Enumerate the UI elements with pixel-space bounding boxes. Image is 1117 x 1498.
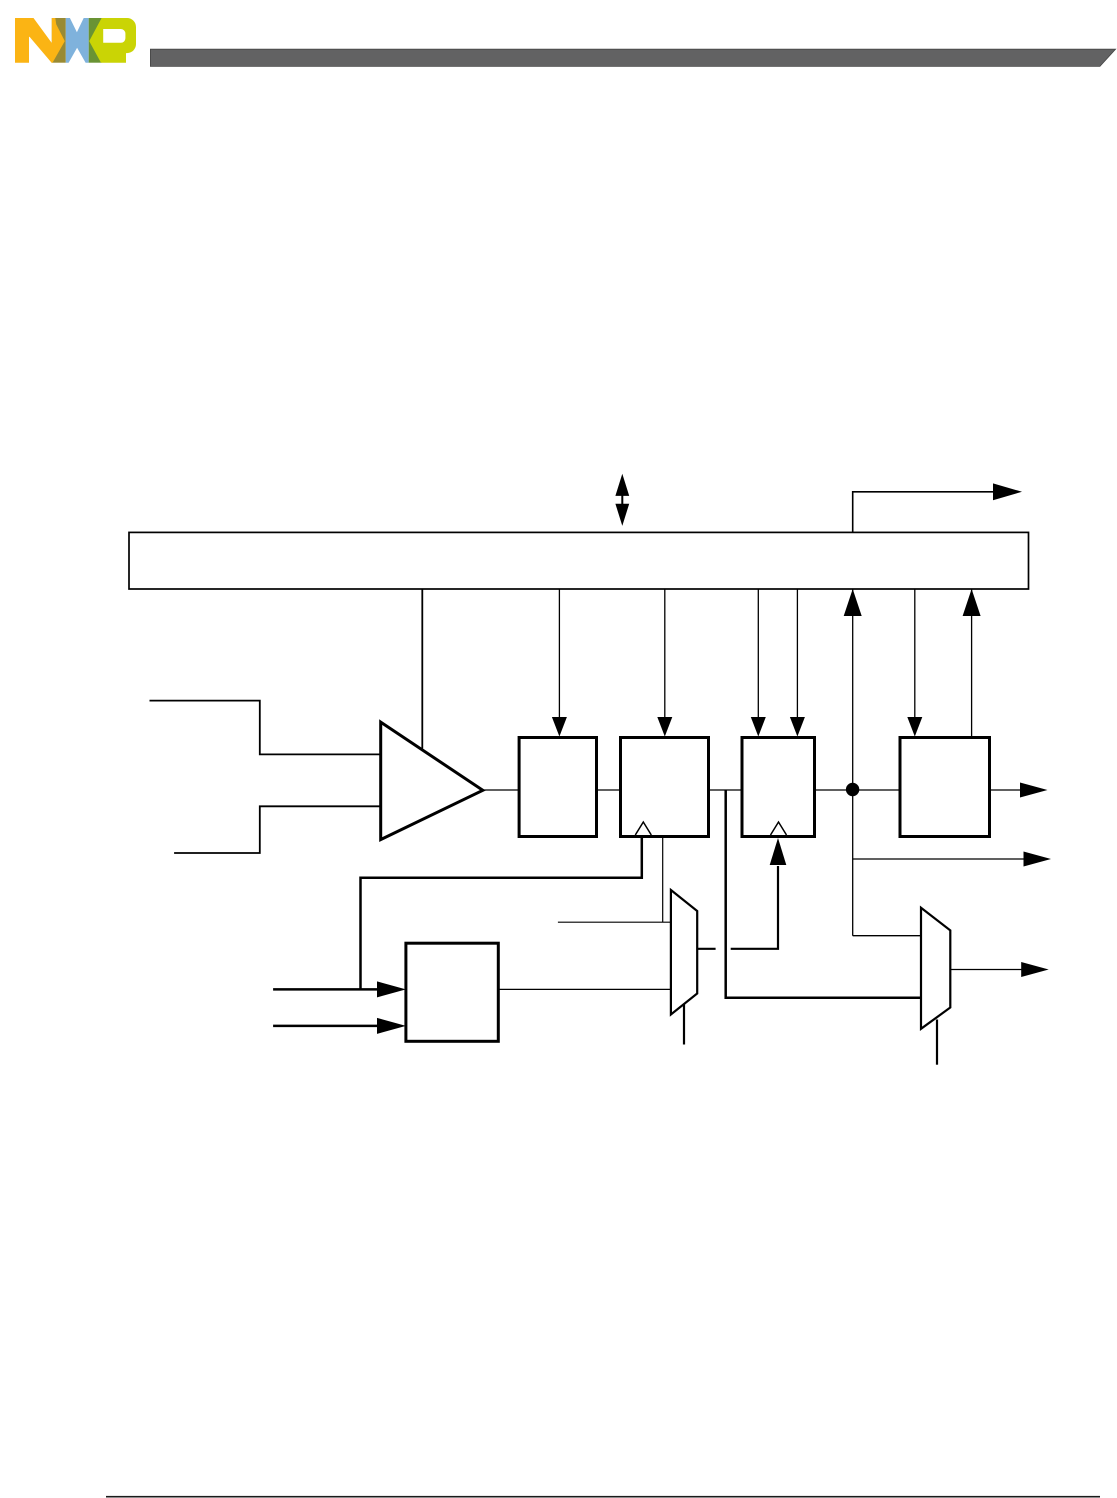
box3 clock chevron bbox=[771, 822, 787, 835]
wire bus to prescaler amp bbox=[421, 589, 423, 749]
wire box3 to box4 bbox=[815, 789, 901, 791]
input clock arrow 1 bbox=[273, 988, 378, 991]
mux1 trapezoid bbox=[671, 890, 697, 1015]
wire bus to box3 arrow b bbox=[796, 589, 798, 717]
input clock arrow 2 bbox=[273, 1025, 378, 1028]
bus read L-arrow (bus to top right) bbox=[853, 492, 995, 533]
small box (clock divider) bbox=[406, 943, 498, 1041]
input pin line 1 (stepped) bbox=[150, 701, 381, 755]
box3 (modulo register) bbox=[742, 738, 815, 837]
box2 (counter) bbox=[621, 738, 709, 837]
up arrowhead into box3 clock bbox=[770, 838, 787, 865]
logo P counter bbox=[103, 29, 125, 43]
wire from dot down to mux2 input a bbox=[853, 935, 921, 937]
mux2 output arrow bbox=[950, 969, 1022, 971]
up arrow into bus (status path) bbox=[852, 589, 854, 936]
branch from box2 bottom to mux1 input a bbox=[662, 837, 664, 923]
wire bus to box2 with arrow bbox=[664, 589, 666, 717]
mux1 output wire with crossover gap bbox=[697, 948, 715, 950]
mux2 trapezoid bbox=[921, 908, 950, 1029]
wire box1 to box2 bbox=[597, 789, 621, 791]
logo blue letter X bbox=[66, 18, 89, 63]
wire amp to box1 bbox=[483, 789, 519, 791]
junction dot bbox=[846, 783, 859, 796]
clock select wire from box2 clock bbox=[361, 837, 642, 990]
logo lime letter P bbox=[89, 18, 136, 63]
input buffer amp triangle bbox=[381, 722, 483, 840]
logo dark green column (X/P overlap) bbox=[89, 18, 102, 63]
wire bus to box3 arrow a bbox=[757, 589, 759, 717]
wire bus to box1 with arrow bbox=[558, 589, 560, 717]
logo orange letter N bbox=[15, 18, 65, 63]
wire bus to box4 with arrow bbox=[914, 589, 916, 717]
mux1 select stub bbox=[683, 1004, 685, 1045]
box1 (prescaler select) bbox=[519, 738, 596, 837]
logo olive column (N/X overlap) bbox=[52, 18, 66, 63]
box4 output arrow bbox=[990, 789, 1022, 791]
wire box2 to box3 bbox=[709, 789, 743, 791]
footer rule bbox=[106, 1496, 1100, 1498]
box2 clock chevron bbox=[635, 822, 651, 835]
input pin line 2 (stepped) bbox=[174, 806, 381, 853]
bidirectional bus arrow bbox=[615, 474, 629, 526]
gray header bar bbox=[150, 49, 1115, 66]
up arrow into bus from box4 bbox=[971, 589, 973, 738]
mux1 input a wire bbox=[558, 921, 671, 923]
small box output wire to mux1 bbox=[498, 988, 671, 990]
compare output arrow bbox=[853, 858, 1024, 860]
box4 (capture register) bbox=[900, 738, 990, 837]
mux2 select stub bbox=[936, 1020, 938, 1065]
NXP logo bbox=[15, 18, 136, 63]
branch wire down to mux2 input b bbox=[726, 790, 921, 998]
bus rectangle bbox=[129, 532, 1029, 589]
